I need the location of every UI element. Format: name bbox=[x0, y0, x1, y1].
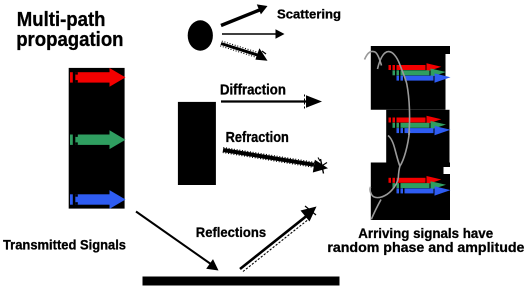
scattering object (ellipse) bbox=[188, 20, 213, 50]
refraction arrow (speckled) bbox=[223, 148, 328, 174]
transmitted red signal arrow bbox=[70, 68, 126, 87]
notch c1 bbox=[444, 167, 451, 174]
svg-text:Transmitted Signals: Transmitted Signals bbox=[3, 237, 126, 252]
receiver block C (bottom) bbox=[371, 163, 450, 221]
receiver block A (top) bbox=[371, 46, 450, 110]
svg-text:Reflections: Reflections bbox=[196, 225, 266, 240]
diffraction arrow bbox=[221, 95, 322, 109]
scatter arrow middle (thin) bbox=[222, 29, 285, 38]
receiver block B (middle) bbox=[386, 110, 449, 163]
ground bar bbox=[143, 277, 340, 286]
arriving signal arrows group 1 bbox=[389, 63, 451, 83]
scatter arrow up bbox=[221, 4, 268, 25]
svg-text:Refraction: Refraction bbox=[226, 130, 289, 146]
arriving signal arrows group 2 bbox=[389, 116, 451, 136]
transmitted blue signal arrow bbox=[70, 190, 126, 209]
gray multipath scribble bbox=[365, 51, 410, 219]
arriving signal arrows group 3 bbox=[389, 176, 451, 196]
scatter arrow down (dotted thick) bbox=[220, 41, 267, 61]
transmitted green signal arrow bbox=[70, 130, 126, 149]
svg-text:Arriving signals have: Arriving signals have bbox=[358, 226, 493, 241]
transmitter block bbox=[69, 68, 125, 209]
obstacle block (diffraction/refraction) bbox=[178, 102, 216, 185]
reflection incoming line bbox=[136, 212, 219, 271]
svg-text:random phase and amplitude: random phase and amplitude bbox=[327, 240, 524, 256]
svg-text:propagation: propagation bbox=[16, 28, 123, 51]
svg-text:Diffraction: Diffraction bbox=[220, 81, 286, 98]
svg-text:Scattering: Scattering bbox=[277, 6, 341, 21]
reflection outgoing arrow (double line) bbox=[240, 206, 317, 272]
